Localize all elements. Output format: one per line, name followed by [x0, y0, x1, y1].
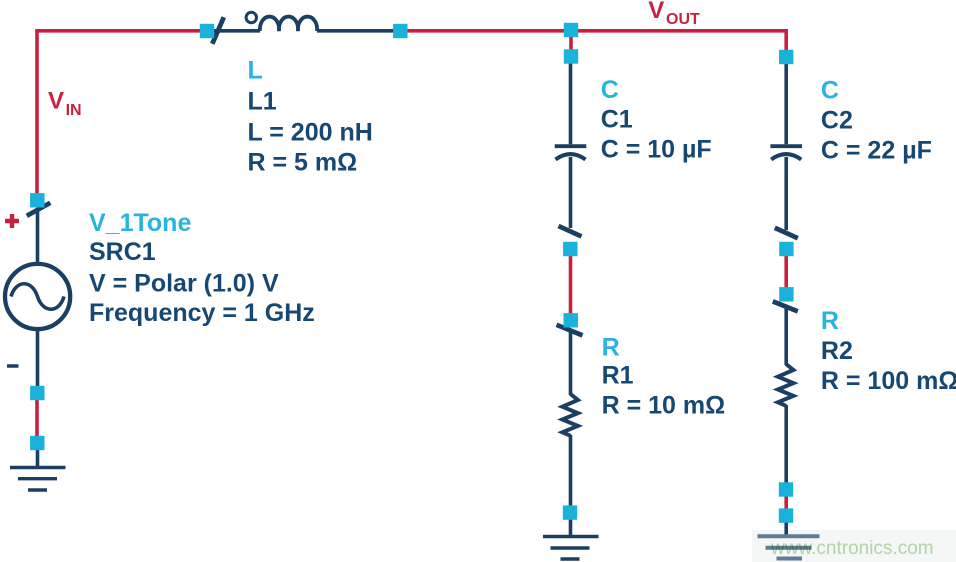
svg-text:R = 5 mΩ: R = 5 mΩ — [248, 149, 358, 177]
svg-text:Frequency = 1 GHz: Frequency = 1 GHz — [89, 299, 315, 327]
svg-text:R2: R2 — [821, 337, 853, 365]
node square R2 bottom 1 — [779, 482, 793, 496]
svg-text:IN: IN — [66, 102, 82, 119]
wire stub to R2 ground — [784, 520, 788, 535]
ground R2 — [758, 536, 820, 558]
pin slash at source plus — [27, 203, 51, 216]
wire C1 lower navy — [569, 157, 573, 228]
label source block — [89, 209, 315, 327]
wire red between R2 bottom nodes — [784, 494, 788, 511]
wire VOUT red bus to C2 corner and down — [400, 31, 786, 50]
node square R2 top — [779, 287, 793, 301]
resistor R2 — [778, 364, 794, 406]
svg-text:R = 100 mΩ: R = 100 mΩ — [821, 367, 956, 395]
label VOUT — [648, 0, 700, 28]
label VIN — [48, 88, 82, 119]
svg-text:V_1Tone: V_1Tone — [89, 209, 191, 237]
resistor R1 — [562, 394, 578, 436]
minus sign — [7, 364, 19, 368]
wire stub to R1 ground — [569, 518, 573, 535]
pin slash C1 bottom — [559, 226, 582, 236]
wire R1 lower navy — [569, 435, 573, 507]
node square C1 bottom — [563, 242, 577, 256]
pin slash R1 top — [557, 325, 583, 336]
wire source top navy — [36, 208, 40, 263]
node square C2 top — [779, 50, 793, 64]
pin slash C2 bottom — [775, 228, 798, 238]
wire navy bus from inductor to node — [317, 29, 400, 33]
node square R1 top — [564, 313, 578, 327]
node square C1 top — [564, 49, 578, 63]
node square R1 bottom — [563, 505, 577, 519]
ground R1 — [543, 537, 599, 560]
svg-text:R: R — [821, 307, 839, 335]
pin slash R2 top — [773, 301, 798, 311]
svg-text:OUT: OUT — [666, 11, 700, 28]
pin slash at inductor input — [212, 17, 224, 44]
wire C2 lower navy — [784, 157, 788, 230]
node square source top — [30, 193, 44, 207]
node square bus right of inductor — [393, 24, 407, 38]
wire R2 lower navy — [784, 405, 788, 486]
ground left — [10, 468, 66, 491]
label L block — [248, 57, 373, 177]
label C1 block — [601, 76, 712, 164]
svg-text:C = 22 µF: C = 22 µF — [821, 136, 932, 164]
watermark background box — [752, 530, 956, 562]
svg-text:V: V — [648, 0, 664, 24]
wire red C1 to R1 — [569, 252, 573, 317]
node square bus left of inductor — [200, 24, 214, 38]
svg-text:L1: L1 — [248, 88, 277, 116]
node square R2 bottom 2 — [779, 508, 793, 522]
wire R2 upper navy — [784, 305, 788, 365]
svg-text:C2: C2 — [821, 106, 853, 134]
label R2 block — [821, 307, 956, 395]
label C2 block — [821, 77, 932, 165]
node square bus at C1 junction — [564, 23, 578, 37]
node square source bottom 2 — [30, 436, 44, 450]
wire C2 upper navy — [784, 64, 788, 144]
svg-text:L = 200 nH: L = 200 nH — [248, 119, 373, 147]
svg-text:R1: R1 — [602, 362, 634, 390]
svg-text:V: V — [48, 88, 64, 115]
inductor L1 — [246, 12, 317, 31]
watermark text — [770, 538, 934, 559]
svg-text:C: C — [601, 76, 619, 104]
svg-text:R: R — [602, 334, 620, 362]
wire red stub at C1 top junction — [569, 32, 573, 50]
voltage source SRC1 circle — [5, 264, 70, 329]
svg-text:www.cntronics.com: www.cntronics.com — [770, 538, 934, 559]
wire navy bus from node to inductor — [207, 29, 260, 33]
wire VIN vertical+top-left red segment — [37, 31, 207, 195]
svg-text:C = 10 µF: C = 10 µF — [601, 136, 712, 164]
svg-text:R = 10 mΩ: R = 10 mΩ — [602, 392, 726, 420]
node square C2 bottom — [779, 242, 793, 256]
wire source bottom navy — [36, 330, 40, 388]
wire stub to left ground — [36, 448, 40, 466]
svg-text:V = Polar (1.0) V: V = Polar (1.0) V — [89, 270, 279, 298]
svg-text:SRC1: SRC1 — [89, 238, 156, 266]
capacitor C1 — [555, 146, 587, 159]
svg-text:C: C — [821, 77, 839, 105]
wire R1 upper navy — [569, 330, 573, 395]
svg-text:C1: C1 — [601, 106, 633, 134]
node square source bottom 1 — [30, 386, 44, 400]
svg-text:L: L — [248, 57, 263, 85]
wire C1 upper navy — [569, 63, 573, 144]
wire red C2 to R2 — [784, 252, 788, 292]
capacitor C2 — [770, 146, 802, 159]
label R1 block — [602, 334, 726, 420]
plus sign — [5, 214, 19, 228]
wire red between source bottom nodes — [35, 398, 39, 438]
